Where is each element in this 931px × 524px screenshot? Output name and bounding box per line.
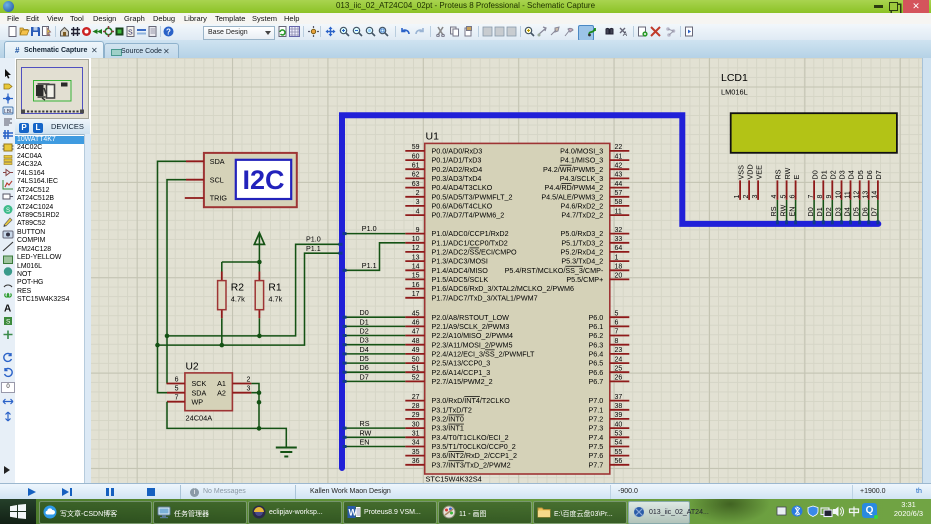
svg-text:EN: EN [360, 437, 370, 446]
svg-text:D7: D7 [874, 170, 883, 179]
svg-text:53: 53 [615, 430, 623, 437]
svg-text:LBL: LBL [4, 109, 13, 115]
svg-text:6: 6 [789, 195, 796, 199]
svg-text:P4.7/TxD2_2: P4.7/TxD2_2 [561, 211, 603, 220]
svg-text:56: 56 [615, 458, 623, 465]
svg-text:D6: D6 [865, 170, 874, 179]
svg-text:54: 54 [615, 440, 623, 447]
LCD1 pin stubs [740, 180, 878, 200]
svg-text:D2: D2 [829, 170, 838, 179]
svg-text:?: ? [166, 28, 171, 37]
svg-text:37: 37 [615, 394, 623, 401]
junction SCL branch [165, 334, 170, 339]
wire D0 from LCD pin to bus [813, 200, 815, 221]
tab bar [0, 40, 931, 59]
svg-text:32: 32 [615, 227, 623, 234]
LCD1 pin names (vertical) [736, 164, 883, 179]
svg-text:12: 12 [412, 245, 420, 252]
wire R2 top to VCC rail [221, 262, 223, 272]
svg-text:14: 14 [412, 263, 420, 270]
svg-text:P1.1: P1.1 [306, 244, 321, 253]
I2C body [204, 153, 297, 207]
svg-text:D1: D1 [360, 317, 369, 326]
svg-text:40: 40 [615, 421, 623, 428]
svg-text:P5.2/RxD4_2: P5.2/RxD4_2 [561, 248, 604, 257]
svg-text:43: 43 [615, 172, 623, 179]
resistor R1 4.7k [255, 272, 282, 319]
U2 pin stubs [167, 384, 252, 402]
svg-text:LCD1: LCD1 [721, 72, 748, 84]
svg-text:A2: A2 [217, 388, 226, 397]
svg-text:46: 46 [412, 320, 420, 327]
svg-text:P0.4/AD4/T3CLKO: P0.4/AD4/T3CLKO [432, 183, 493, 192]
svg-text:P3.2/INT0: P3.2/INT0 [432, 415, 464, 424]
svg-text:P1.3/ADC3/MOSI: P1.3/ADC3/MOSI [432, 257, 488, 266]
title bar [0, 0, 931, 13]
I2C debugger module [204, 153, 297, 207]
svg-text:P2.0/A8/RSTOUT_LOW: P2.0/A8/RSTOUT_LOW [432, 313, 510, 322]
svg-text:RS: RS [769, 206, 778, 216]
svg-text:EN: EN [787, 207, 796, 217]
svg-text:P0.5/AD5/T3/PWMFLT_2: P0.5/AD5/T3/PWMFLT_2 [432, 192, 513, 201]
bus (thick blue I2C/data bus) [342, 115, 878, 468]
svg-text:20: 20 [615, 273, 623, 280]
svg-text:D5: D5 [852, 207, 861, 216]
svg-text:4: 4 [416, 208, 420, 215]
svg-text:P1.2/ADC2/SS/ECI/CMPO: P1.2/ADC2/SS/ECI/CMPO [432, 248, 517, 257]
wire D0 from bus to U1 pin 45 [345, 316, 405, 318]
svg-text:33: 33 [615, 236, 623, 243]
svg-text:P3.3/INT1: P3.3/INT1 [432, 424, 464, 433]
svg-text:55: 55 [615, 449, 623, 456]
wire D6 from LCD pin to bus [868, 200, 870, 221]
svg-text:P0.2/AD2/RxD4: P0.2/AD2/RxD4 [432, 165, 483, 174]
svg-text:VEE: VEE [754, 165, 763, 180]
junction on A1/A2 drop [257, 400, 262, 405]
svg-text:R1: R1 [268, 283, 281, 294]
wire RW from LCD pin to bus [786, 200, 788, 221]
svg-text:P1.0: P1.0 [306, 234, 321, 243]
svg-text:P6.6: P6.6 [589, 368, 604, 377]
wire D1 from LCD pin to bus [822, 200, 824, 221]
power symbol (VCC arrow) [254, 233, 264, 245]
svg-text:RW: RW [778, 204, 787, 216]
svg-text:P1.4/ADC4/MISO: P1.4/ADC4/MISO [432, 266, 489, 275]
menu bar [0, 13, 931, 24]
svg-text:A1: A1 [217, 379, 226, 388]
mcu U1 STC15W4K32S4 [405, 131, 629, 484]
svg-text:P7.4: P7.4 [589, 433, 604, 442]
svg-text:P1.0/ADC0/CCP1/RxD2: P1.0/ADC0/CCP1/RxD2 [432, 229, 509, 238]
svg-text:D5: D5 [360, 354, 369, 363]
svg-text:18: 18 [615, 263, 623, 270]
svg-text:35: 35 [412, 449, 420, 456]
svg-text:A: A [622, 32, 627, 37]
wire U2.WP to ground rail [167, 402, 286, 447]
svg-text:13: 13 [863, 191, 870, 199]
svg-text:E: E [792, 175, 801, 180]
svg-text:9: 9 [416, 227, 420, 234]
svg-text:6: 6 [615, 320, 619, 327]
svg-text:WP: WP [192, 397, 204, 406]
svg-text:4: 4 [771, 195, 778, 199]
svg-text:27: 27 [412, 394, 420, 401]
svg-text:11: 11 [615, 208, 622, 215]
svg-text:34: 34 [412, 440, 420, 447]
I2C display window [236, 160, 291, 199]
svg-text:D0: D0 [806, 207, 815, 216]
LCD1 pin numbers 1-14 (vertical) [734, 191, 879, 199]
wire RW from bus to U1 pin 31 [345, 436, 405, 438]
svg-text:17: 17 [412, 291, 420, 298]
junction A2 joins A1 [257, 390, 262, 395]
svg-text:4.7k: 4.7k [268, 295, 282, 304]
svg-text:P2.4/A12/ECI_3/SS_2/PWMFLT: P2.4/A12/ECI_3/SS_2/PWMFLT [432, 349, 536, 358]
wire D5 from LCD pin to bus [859, 200, 861, 221]
wire D3 from bus to U1 pin 48 [345, 344, 405, 346]
svg-text:39: 39 [615, 412, 623, 419]
schematic canvas [91, 58, 922, 483]
junction SDA branch [155, 343, 160, 348]
svg-text:36: 36 [412, 458, 420, 465]
svg-text:P7.0: P7.0 [589, 396, 604, 405]
svg-text:D0: D0 [360, 308, 369, 317]
svg-text:29: 29 [412, 412, 420, 419]
svg-text:2: 2 [416, 190, 420, 197]
svg-text:D0: D0 [810, 170, 819, 179]
svg-text:8: 8 [817, 195, 824, 199]
svg-text:RW: RW [360, 428, 372, 437]
svg-text:12: 12 [854, 191, 861, 199]
svg-text:63: 63 [412, 181, 420, 188]
svg-text:VSS: VSS [736, 165, 745, 180]
svg-text:59: 59 [412, 144, 420, 151]
U1 left pin stubs [405, 151, 424, 465]
svg-text:A: A [4, 303, 11, 313]
U1 body [425, 143, 610, 474]
wire VCC rail [222, 234, 260, 262]
svg-text:P6.7: P6.7 [589, 377, 604, 386]
svg-text:VDD: VDD [745, 164, 754, 179]
svg-text:P4.6/RxD2_2: P4.6/RxD2_2 [561, 202, 604, 211]
wire EN from bus to U1 pin 34 [345, 446, 405, 448]
svg-text:P7.2: P7.2 [589, 415, 604, 424]
wire D5 from bus to U1 pin 50 [345, 362, 405, 364]
svg-text:I2C: I2C [242, 165, 284, 195]
svg-text:RS: RS [774, 169, 783, 179]
svg-text:D1: D1 [815, 207, 824, 216]
svg-text:P0.6/AD6/T4CLKO: P0.6/AD6/T4CLKO [432, 202, 493, 211]
wire R1 top to VCC rail [258, 262, 260, 272]
svg-text:P6.3: P6.3 [589, 340, 604, 349]
svg-text:16: 16 [412, 282, 420, 289]
svg-text:S: S [6, 319, 11, 326]
svg-text:P5.0/RxD3_2: P5.0/RxD3_2 [561, 229, 604, 238]
wire D6 from bus to U1 pin 51 [345, 371, 405, 373]
svg-text:50: 50 [412, 356, 420, 363]
svg-text:64: 64 [615, 245, 623, 252]
svg-text:44: 44 [615, 181, 623, 188]
svg-text:7: 7 [175, 395, 179, 402]
U2 body [185, 373, 233, 411]
svg-text:RW: RW [783, 167, 792, 179]
svg-text:R2: R2 [231, 283, 244, 294]
svg-text:9: 9 [826, 195, 833, 199]
svg-text:SCL: SCL [210, 175, 224, 184]
svg-text:P0.7/AD7/T4/PWM6_2: P0.7/AD7/T4/PWM6_2 [432, 211, 505, 220]
svg-text:26: 26 [615, 375, 623, 382]
svg-text:P5.4/RST/MCLKO/SS_3/CMP-: P5.4/RST/MCLKO/SS_3/CMP- [505, 266, 604, 275]
svg-text:D6: D6 [861, 207, 870, 216]
svg-text:U1: U1 [426, 131, 440, 143]
svg-text:30: 30 [412, 421, 420, 428]
svg-text:58: 58 [615, 199, 623, 206]
svg-text:31: 31 [412, 430, 420, 437]
U1 left pin names [432, 147, 574, 470]
svg-text:P5.5/CMP+: P5.5/CMP+ [566, 275, 603, 284]
svg-text:P6.4: P6.4 [589, 349, 604, 358]
svg-text:3: 3 [416, 199, 420, 206]
svg-text:24C04A: 24C04A [186, 414, 213, 423]
svg-text:TRIG: TRIG [210, 194, 228, 203]
svg-text:14: 14 [872, 191, 879, 199]
svg-text:51: 51 [412, 365, 420, 372]
svg-text:P3.6/INT2/RxD_2/CCP1_2: P3.6/INT2/RxD_2/CCP1_2 [432, 451, 518, 460]
svg-text:13: 13 [412, 254, 420, 261]
toolbar [0, 24, 931, 41]
svg-text:P7.5: P7.5 [589, 442, 604, 451]
svg-text:P1.1: P1.1 [362, 261, 377, 270]
wire D4 from bus to U1 pin 49 [345, 353, 405, 355]
svg-text:P2.1/A9/SCLK_2/PWM3: P2.1/A9/SCLK_2/PWM3 [432, 322, 510, 331]
svg-text:P3.1/TxD/T2: P3.1/TxD/T2 [432, 405, 472, 414]
svg-text:3: 3 [247, 386, 251, 393]
svg-text:D3: D3 [360, 336, 369, 345]
svg-text:P4.1/MISO_3: P4.1/MISO_3 [560, 156, 603, 165]
svg-text:LM016L: LM016L [721, 88, 748, 97]
svg-text:P4.0/MOSI_3: P4.0/MOSI_3 [560, 147, 603, 156]
svg-text:D2: D2 [824, 207, 833, 216]
svg-text:22: 22 [615, 144, 623, 151]
wire D7 from bus to U1 pin 52 [345, 380, 405, 382]
ground symbol [276, 448, 297, 457]
svg-text:P2.7/A15/PWM2_2: P2.7/A15/PWM2_2 [432, 377, 493, 386]
svg-text:41: 41 [615, 153, 623, 160]
svg-text:P3.7/INT3/TxD_2/PWM2: P3.7/INT3/TxD_2/PWM2 [432, 460, 511, 469]
svg-text:D4: D4 [842, 207, 851, 216]
svg-text:11: 11 [844, 191, 851, 198]
svg-text:47: 47 [412, 329, 420, 336]
svg-text:D6: D6 [360, 363, 369, 372]
svg-text:P2.2/A10/MISO_2/PWM4: P2.2/A10/MISO_2/PWM4 [432, 331, 514, 340]
wire RS from bus to U1 pin 30 [345, 427, 405, 429]
svg-text:P0.1/AD1/TxD3: P0.1/AD1/TxD3 [432, 156, 482, 165]
svg-text:P2.6/A14/CCP1_3: P2.6/A14/CCP1_3 [432, 368, 491, 377]
svg-text:49: 49 [412, 347, 420, 354]
wire R2 bottom to SDA line [221, 318, 223, 345]
svg-text:62: 62 [412, 172, 420, 179]
svg-text:RS: RS [360, 419, 370, 428]
wire P1.0 from bus to U1 pin 9 [345, 233, 405, 235]
wire R1 bottom to SCL line [258, 318, 260, 336]
svg-text:7: 7 [615, 329, 619, 336]
wire SDA net: I2C.SDA down to U2.SDA [158, 161, 187, 392]
svg-text:P5.3/TxD4_2: P5.3/TxD4_2 [561, 257, 603, 266]
resistor R2 4.7k [218, 272, 245, 319]
svg-text:S: S [128, 30, 133, 37]
junction R2 bottom on SDA line [220, 343, 225, 348]
svg-text:45: 45 [412, 310, 420, 317]
svg-text:P7.3: P7.3 [589, 424, 604, 433]
svg-text:D1: D1 [820, 170, 829, 179]
wire D2 from LCD pin to bus [831, 200, 833, 221]
svg-text:10: 10 [835, 191, 842, 199]
svg-text:8: 8 [615, 338, 619, 345]
svg-text:15: 15 [412, 273, 420, 280]
status bar [0, 483, 931, 500]
svg-text:P5.1/TxD3_2: P5.1/TxD3_2 [561, 238, 603, 247]
wire RS from LCD pin to bus [776, 200, 778, 221]
wire D2 from bus to U1 pin 47 [345, 335, 405, 337]
svg-text:57: 57 [615, 190, 623, 197]
bus entry taps [339, 220, 880, 448]
left tools [0, 58, 16, 483]
svg-text:D7: D7 [870, 207, 879, 216]
svg-text:D4: D4 [847, 170, 856, 179]
svg-text:P4.3/SCLK_3: P4.3/SCLK_3 [560, 174, 604, 183]
wire SCL horizontal branch to P1.0 riser [167, 244, 339, 336]
wire P1.1 from bus to U1 pin 10 [345, 243, 405, 270]
svg-text:P1.1/ADC1/CCP0/TxD2: P1.1/ADC1/CCP0/TxD2 [432, 238, 508, 247]
svg-text:6: 6 [175, 377, 179, 384]
svg-text:10: 10 [412, 236, 420, 243]
U1 right pin numbers [615, 144, 623, 465]
wire D3 from LCD pin to bus [841, 200, 843, 221]
svg-text:S: S [6, 208, 10, 214]
svg-text:D7: D7 [360, 372, 369, 381]
svg-text:P1.0: P1.0 [362, 224, 377, 233]
svg-text:28: 28 [412, 403, 420, 410]
U1 left pin numbers [412, 144, 420, 465]
eeprom U2 24C04A [175, 362, 251, 423]
svg-text:P6.2: P6.2 [589, 331, 604, 340]
svg-text:5: 5 [615, 310, 619, 317]
svg-text:P7.6: P7.6 [589, 451, 604, 460]
svg-text:D3: D3 [833, 207, 842, 216]
wire SDA horizontal branch to P1.1 riser [158, 253, 340, 345]
wire SCL net: I2C.SCL down to U2.SCK [167, 180, 186, 384]
U1 right pin names [505, 147, 604, 470]
svg-text:2: 2 [247, 377, 251, 384]
svg-text:P2.3/A11/MOSI_2/PWM5: P2.3/A11/MOSI_2/PWM5 [432, 340, 513, 349]
left panel [15, 58, 92, 483]
wire U2.A1/A2 tie-down [251, 384, 259, 429]
svg-text:60: 60 [412, 153, 420, 160]
svg-text:P3.0/RxD/INT4/T2CLKO: P3.0/RxD/INT4/T2CLKO [432, 396, 511, 405]
svg-text:P1.7/ADC7/TxD_3/XTAL1/PWM7: P1.7/ADC7/TxD_3/XTAL1/PWM7 [432, 293, 538, 302]
svg-text:1: 1 [615, 254, 619, 261]
wire D7 from LCD pin to bus [877, 200, 879, 221]
svg-text:SCK: SCK [192, 379, 207, 388]
svg-text:D4: D4 [360, 345, 369, 354]
svg-text:P3.5/T1/T0CLKO/CCP0_2: P3.5/T1/T0CLKO/CCP0_2 [432, 442, 516, 451]
svg-text:P7.1: P7.1 [589, 405, 604, 414]
svg-text:38: 38 [615, 403, 623, 410]
svg-text:P6.5: P6.5 [589, 359, 604, 368]
svg-text:P1.5/ADC5/SCLK: P1.5/ADC5/SCLK [432, 275, 489, 284]
svg-text:24: 24 [615, 356, 623, 363]
junction A-drop joins ground rail [257, 426, 262, 431]
lcd LCD1 LM016L [721, 72, 897, 200]
svg-text:52: 52 [412, 375, 420, 382]
svg-text:D2: D2 [360, 327, 369, 336]
svg-text:61: 61 [412, 162, 420, 169]
I2C pin stubs (SDA, SCL, TRIG) [185, 161, 204, 198]
svg-text:P6.1: P6.1 [589, 322, 604, 331]
wire EN from LCD pin to bus [795, 200, 797, 221]
svg-text:P2.5/A13/CCP0_3: P2.5/A13/CCP0_3 [432, 359, 491, 368]
U1 right pin stubs [610, 151, 630, 465]
svg-text:U2: U2 [186, 362, 199, 373]
svg-text:5: 5 [175, 386, 179, 393]
svg-text:SDA: SDA [192, 388, 207, 397]
svg-text:P0.0/AD0/RxD3: P0.0/AD0/RxD3 [432, 147, 483, 156]
svg-text:48: 48 [412, 338, 420, 345]
svg-text:42: 42 [615, 162, 623, 169]
svg-text:4.7k: 4.7k [231, 295, 245, 304]
taskbar [0, 499, 931, 524]
svg-text:D5: D5 [856, 170, 865, 179]
svg-text:P0.3/AD3/TxD4: P0.3/AD3/TxD4 [432, 174, 482, 183]
svg-text:23: 23 [615, 347, 623, 354]
junction R1 bottom on SCL line [257, 334, 262, 339]
svg-text:25: 25 [615, 365, 623, 372]
svg-text:P4.2/WR/PWM5_2: P4.2/WR/PWM5_2 [543, 165, 603, 174]
svg-text:2: 2 [743, 195, 750, 199]
svg-text:1: 1 [734, 195, 741, 199]
svg-text:P6.0: P6.0 [589, 313, 604, 322]
wire D1 from bus to U1 pin 46 [345, 325, 405, 327]
svg-text:3: 3 [752, 195, 759, 199]
svg-text:SDA: SDA [210, 157, 225, 166]
svg-text:P3.4/T0/T1CLKO/ECI_2: P3.4/T0/T1CLKO/ECI_2 [432, 433, 509, 442]
junction VCC rail at R1 top [257, 260, 262, 265]
svg-text:D3: D3 [838, 170, 847, 179]
svg-text:P4.4/RD/PWM4_2: P4.4/RD/PWM4_2 [545, 183, 604, 192]
wire D4 from LCD pin to bus [850, 200, 852, 221]
svg-text:STC15W4K32S4: STC15W4K32S4 [426, 475, 482, 484]
svg-text:5: 5 [780, 195, 787, 199]
svg-text:P1.6/ADC6/RxD_3/XTAL2/MCLKO_2/: P1.6/ADC6/RxD_3/XTAL2/MCLKO_2/PWM6 [432, 284, 574, 293]
svg-text:P4.5/ALE/PWM3_2: P4.5/ALE/PWM3_2 [541, 192, 603, 201]
svg-text:P7.7: P7.7 [589, 460, 604, 469]
LCD1 screen [731, 113, 897, 153]
svg-text:7: 7 [808, 195, 815, 199]
